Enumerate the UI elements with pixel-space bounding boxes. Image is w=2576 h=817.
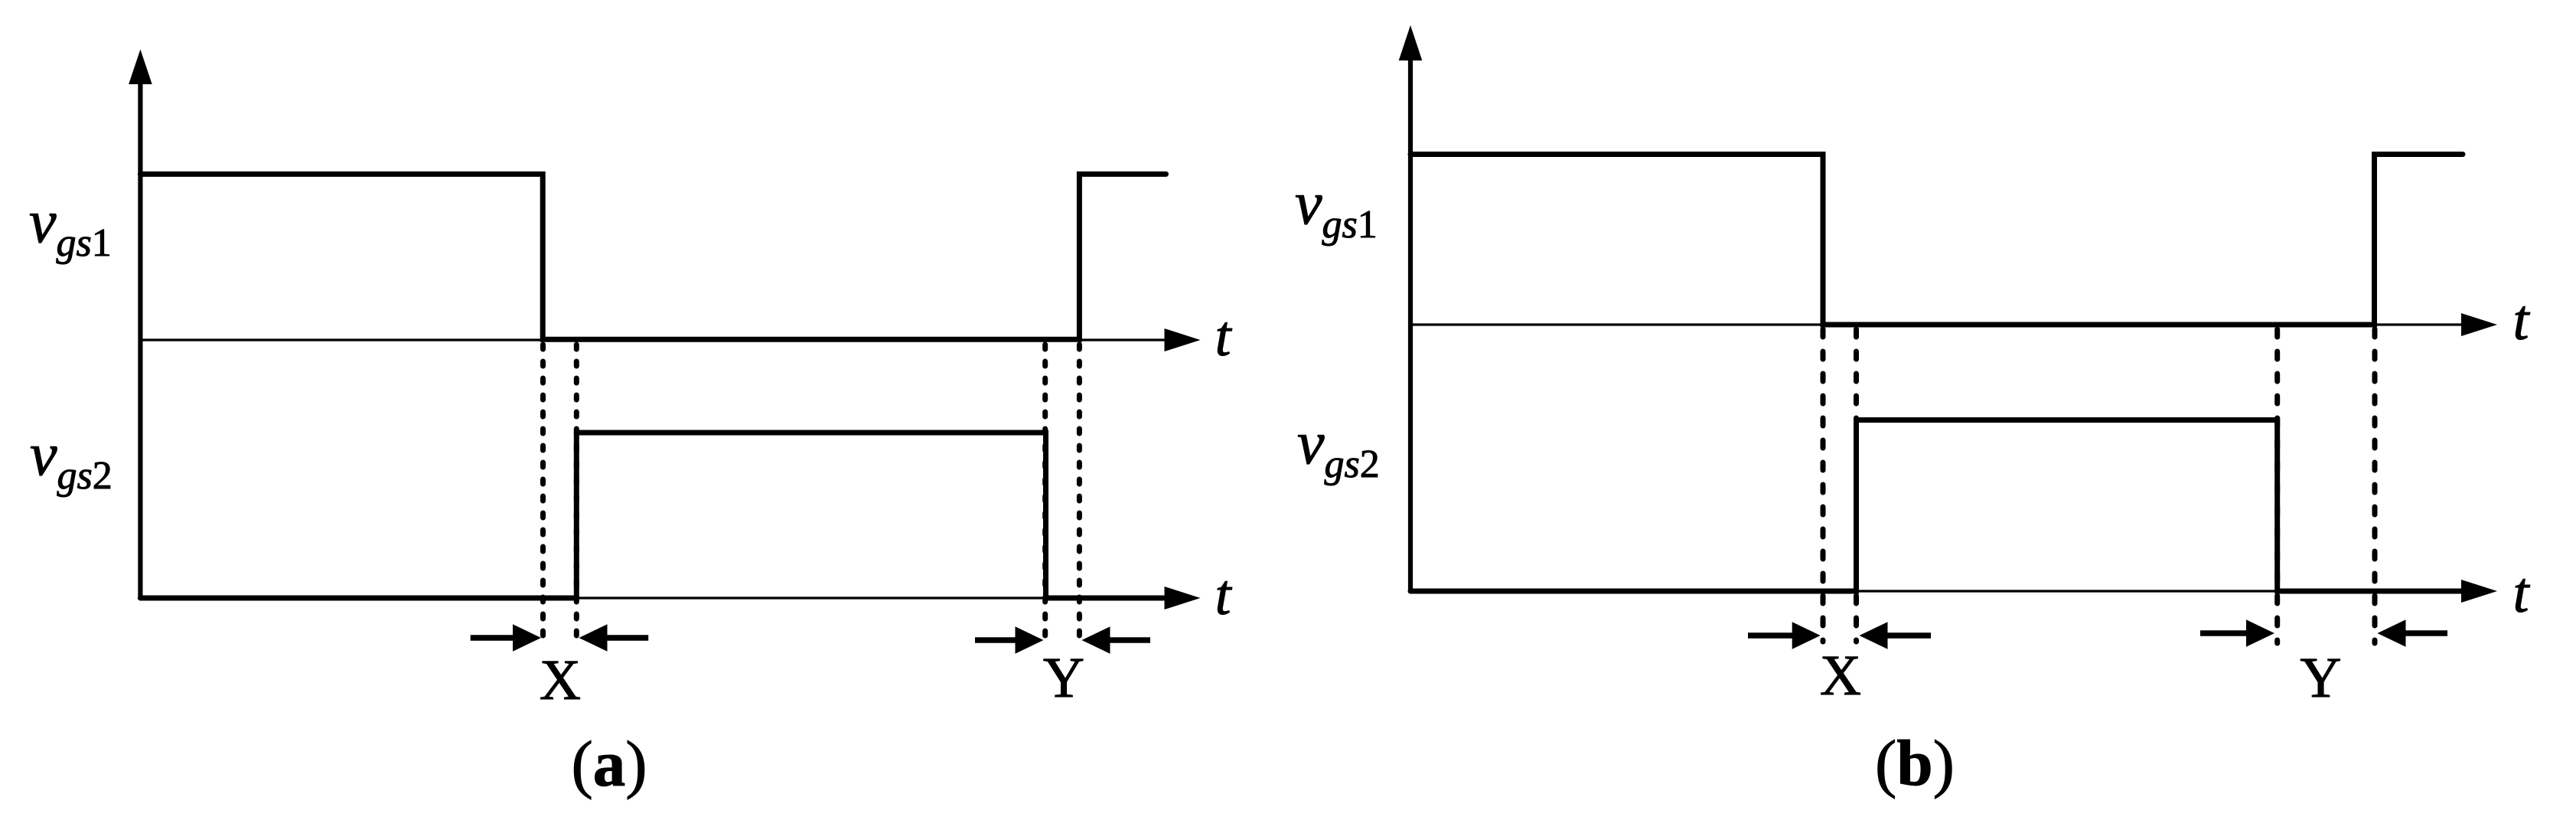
dashed line X2 (a) <box>574 345 579 642</box>
X right arrow (b) <box>1860 622 1932 649</box>
svg-text:Y: Y <box>2300 646 2341 710</box>
dashed line Y2 (a) <box>1077 345 1082 645</box>
svg-text:Y: Y <box>1043 646 1084 710</box>
Y right arrow (b) <box>2378 619 2448 647</box>
dashed line Y1 (a) <box>1042 345 1048 645</box>
svg-text:t: t <box>2513 561 2531 625</box>
X left arrow (a) <box>471 624 541 652</box>
Y right arrow (a) <box>1082 626 1151 654</box>
svg-text:vgs1: vgs1 <box>1295 170 1378 247</box>
dashed line X2 (b) <box>1854 329 1859 642</box>
vertical axis (b) <box>1399 25 1423 591</box>
waveform vgs2 (b) <box>1410 420 2463 592</box>
svg-text:X: X <box>1820 644 1861 708</box>
svg-text:X: X <box>540 649 581 712</box>
waveform vgs2 (a) <box>140 433 1163 598</box>
time axis 2 (b) thin <box>1410 580 2497 603</box>
time axis 2 (a) thin <box>140 587 1200 609</box>
waveform vgs1 (a) <box>140 174 1166 339</box>
svg-text:vgs1: vgs1 <box>29 188 112 265</box>
dashed line X1 (b) <box>1821 329 1826 642</box>
svg-text:t: t <box>1215 305 1233 368</box>
dashed line X1 (a) <box>540 345 546 642</box>
vertical axis (a) <box>129 50 152 599</box>
dashed line Y2 (b) <box>2372 329 2378 643</box>
svg-text:(b): (b) <box>1875 727 1955 799</box>
dashed line Y1 (b) <box>2274 329 2280 643</box>
svg-text:(a): (a) <box>571 728 647 800</box>
X left arrow (b) <box>1748 622 1821 649</box>
svg-text:vgs2: vgs2 <box>30 421 112 498</box>
svg-text:t: t <box>1215 564 1233 627</box>
time axis 1 (b) thin <box>1410 313 2497 336</box>
waveform vgs1 (b) <box>1410 155 2463 325</box>
X right arrow (a) <box>579 624 649 652</box>
time axis 1 (a) thin <box>140 328 1200 351</box>
Y left arrow (b) <box>2200 619 2274 647</box>
svg-text:t: t <box>2513 289 2531 352</box>
Y left arrow (a) <box>975 626 1044 654</box>
svg-text:vgs2: vgs2 <box>1297 410 1380 486</box>
